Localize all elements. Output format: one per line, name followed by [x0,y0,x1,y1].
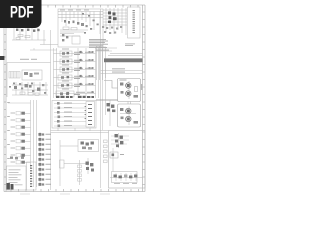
capacitor cluster C10-C15 [64,20,79,25]
wire y47 [95,48,117,51]
sheet border ruler right [143,5,146,192]
net label [20,58,37,61]
secondary rectifier row E [110,173,143,184]
notes text box [7,166,27,190]
CRT socket box B [118,102,141,128]
wire horizontal y62 [7,63,51,98]
ladder row 1 [11,112,31,115]
CRT socket box A [118,79,141,102]
vertical wire x61 [59,140,61,186]
amplifier row 2 [54,57,96,64]
ladder row 5 [11,140,31,143]
svg-text:PDF: PDF [10,4,34,22]
twin horizontal wires [51,131,109,133]
relay K1 [72,36,80,44]
left ladder connectors [31,100,37,187]
value labels top [60,9,89,12]
row letter labels left border [7,102,10,159]
diode chain column [104,140,108,163]
stub wires below box [58,128,90,131]
tuner section wires [103,8,127,35]
sheet border ruler bottom [4,189,145,194]
dense label row y96 [56,96,94,98]
wire stub y50 [30,48,57,50]
power supply outline box [109,131,146,189]
label right of box A [141,84,142,90]
net labels above bus [96,44,135,51]
wire vertical bus x100 [100,9,102,188]
title strip vertical [27,162,37,190]
switcher Q30 cluster [110,148,124,172]
capacitor cluster C1-C4 [16,29,40,32]
wire vertical bus x50 [50,30,52,190]
wire vertical bus x102 [102,48,104,130]
transistor Q2 Q3 [14,84,40,91]
ladder row 2 [11,119,31,122]
wire bundle thick bus [104,58,143,62]
wire y163 [64,163,86,165]
transistor Q12 [126,116,131,121]
degauss box F [60,140,99,152]
ladder row 4 [11,133,31,136]
deflection labels [64,103,72,126]
wire row y103 [8,102,31,104]
diode cluster D1 [62,34,68,41]
section mark left edge [0,56,5,60]
speck parts U1 [82,13,99,34]
transistor Q11 [126,108,131,113]
transistor ladder strip Q10-Q20 [39,132,52,186]
IC U3 [22,70,42,80]
amplifier row 4 [54,73,96,80]
speck parts audio [9,83,46,94]
focus labels [112,68,125,72]
transistor Q1 [81,23,88,27]
PDF badge [0,0,42,28]
rectifier outline box [112,172,138,183]
connector J1 vertical strip [128,7,141,38]
deflection components [57,102,60,127]
IC U4 [85,102,95,128]
amplifier row 6 [54,89,96,97]
IC U2 tuner [108,11,117,23]
ladder row 8 [11,161,31,164]
capacitor row C20 [102,26,122,34]
note text block [89,39,108,48]
ladder bus right [78,48,99,98]
resistor cluster R1-R3 [16,35,30,40]
resistor group R10 [60,27,88,36]
branch wire to CRT board [104,81,118,89]
ladder row 6 [11,147,31,150]
relay box H [60,160,65,168]
box U1 video processor block [58,9,103,47]
CRT wire bundle [97,46,106,80]
regulator cluster D [111,133,129,148]
ladder bus left [54,48,57,98]
input cluster below badge [12,28,58,45]
deflection box center [52,101,96,129]
sheet border ruler top [40,5,145,8]
transistor Q8 [126,83,131,88]
ladder row 3 [11,126,31,129]
transformer T1 dark [7,183,14,190]
amplifier row 5 [54,81,96,88]
amplifier row 3 [54,65,96,72]
driver cluster C [96,62,118,126]
capacitor cluster C5 [20,92,39,95]
sheet border ruler left [4,27,6,192]
vertical chain G [78,158,95,185]
audio cluster wires [12,82,48,95]
small parts above notes [10,157,24,160]
ladder row 7 [11,154,31,157]
transistor Q9 [126,91,131,96]
stub between boards [128,102,131,105]
focus wires [101,71,143,74]
amplifier row 1 [54,49,96,56]
deflection rows [54,104,86,127]
resistor network RN1 comb [9,72,20,79]
